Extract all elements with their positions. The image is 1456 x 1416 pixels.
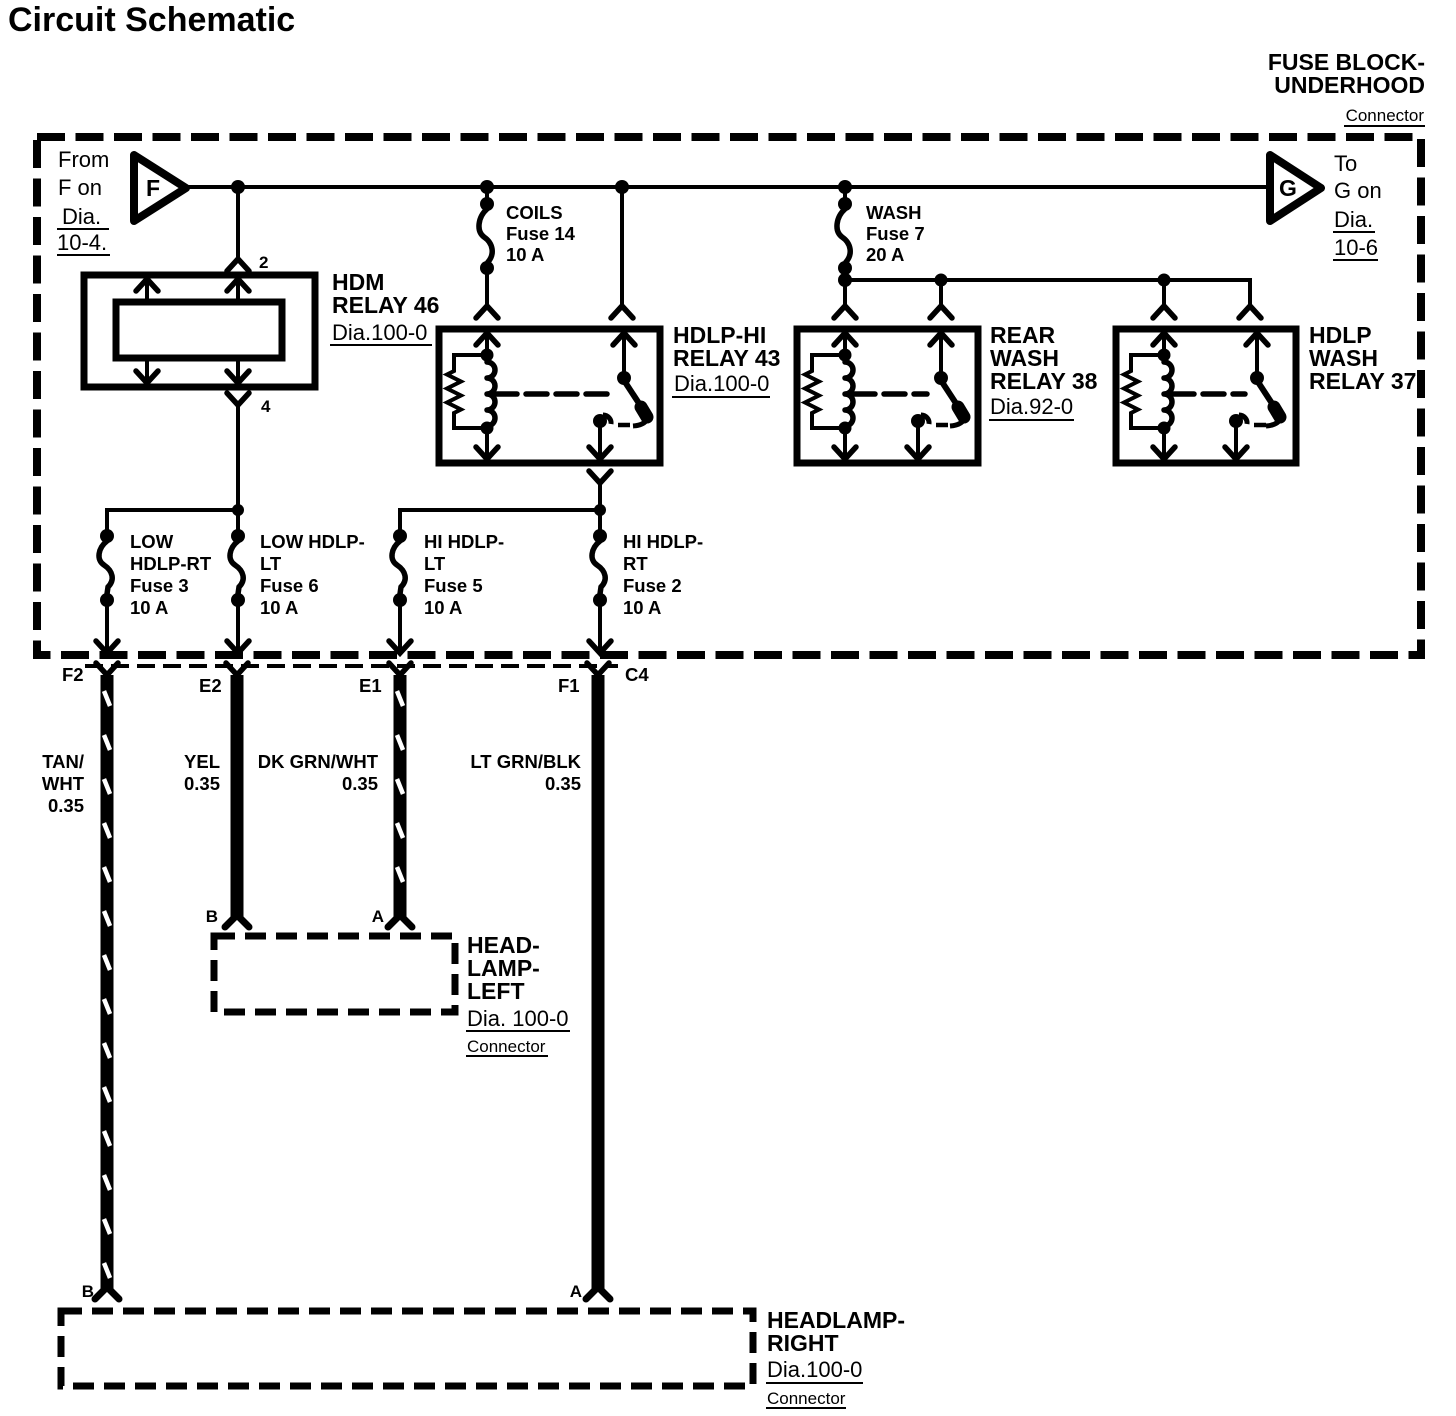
switch output arrow [916, 421, 920, 460]
svg-text:From: From [58, 147, 109, 172]
HEADLAMP-RIGHT connector box [61, 1311, 753, 1386]
svg-text:10 A: 10 A [623, 597, 661, 618]
pin arrow top left [145, 279, 149, 302]
svg-text:4: 4 [261, 397, 271, 416]
svg-text:RIGHT: RIGHT [767, 1330, 839, 1356]
svg-text:Fuse 7: Fuse 7 [866, 223, 925, 244]
svg-text:WHT: WHT [42, 773, 85, 794]
node dot low [232, 504, 244, 516]
svg-text:Connector: Connector [1346, 106, 1425, 125]
fuse 2 HI HDLP-RT [589, 529, 611, 653]
svg-text:A: A [570, 1282, 582, 1301]
svg-text:HI HDLP-: HI HDLP- [623, 531, 703, 552]
svg-text:Dia.100-0: Dia.100-0 [674, 371, 769, 396]
REAR WASH relay 38 label [989, 322, 1098, 420]
svg-text:LT GRN/BLK: LT GRN/BLK [470, 751, 581, 772]
switch common pin arrow [939, 332, 943, 375]
wire bus to relay43 switch pin [620, 187, 624, 305]
fork wire1 top [96, 663, 118, 675]
wire to relay38 coil [843, 280, 847, 305]
fuse 6 LOW HDLP-LT [227, 529, 249, 653]
wire DK GRN/WHT label [258, 751, 379, 794]
svg-text:0.35: 0.35 [545, 773, 581, 794]
wire LT GRN/BLK [592, 675, 605, 1289]
switch output arrow [598, 421, 602, 460]
connector fork below relay43 [589, 471, 611, 483]
wire DK GRN/WHT [394, 675, 407, 917]
svg-text:F2: F2 [62, 664, 84, 685]
wire to relay37 coil [1162, 280, 1166, 305]
svg-text:RELAY 38: RELAY 38 [990, 368, 1098, 394]
fork wire3 bottom [388, 915, 412, 927]
svg-text:COILS: COILS [506, 202, 563, 223]
fuse 14 COILS [479, 187, 494, 305]
svg-text:10-6: 10-6 [1334, 235, 1378, 260]
svg-text:TAN/: TAN/ [42, 751, 84, 772]
svg-text:Connector: Connector [767, 1389, 846, 1408]
svg-text:LT: LT [424, 553, 446, 574]
svg-text:LOW: LOW [130, 531, 174, 552]
svg-text:Fuse 6: Fuse 6 [260, 575, 319, 596]
switch NO contact [593, 414, 607, 428]
fuse 5 label [424, 531, 504, 618]
wire TAN/WHT label [42, 751, 85, 816]
off-page connector F [134, 155, 186, 221]
wash branch wire [845, 280, 1250, 305]
fork wire2 bottom [225, 915, 249, 927]
wire DK GRN/WHT stripes [397, 691, 403, 882]
node dot wash branch [838, 273, 852, 287]
wire TAN/WHT [101, 675, 114, 1289]
svg-text:20 A: 20 A [866, 244, 904, 265]
svg-text:2: 2 [259, 253, 268, 272]
connector fork pin 2 [227, 259, 249, 271]
resistor [805, 355, 845, 428]
svg-text:10-4.: 10-4. [57, 230, 107, 255]
svg-text:Fuse 5: Fuse 5 [424, 575, 483, 596]
coil bottom arrow [485, 428, 489, 460]
svg-text:F on: F on [58, 175, 102, 200]
fuse 3 LOW HDLP-RT [96, 529, 118, 653]
HDM relay 46 [84, 275, 315, 387]
main bus wire [187, 185, 1269, 189]
fuse 7 label [866, 202, 925, 265]
HDM relay 46 label [330, 269, 439, 345]
connector fork relay37 coil [1153, 306, 1175, 318]
svg-text:Dia.100-0: Dia.100-0 [332, 320, 427, 345]
connector dashed line [85, 664, 618, 668]
svg-text:LT: LT [260, 553, 282, 574]
off-page connector G [1270, 155, 1321, 221]
mechanical dashed link [496, 391, 610, 397]
HEADLAMP-LEFT label [466, 932, 570, 1056]
svg-text:RELAY 43: RELAY 43 [673, 345, 780, 371]
wire low hdlp horizontal [107, 510, 238, 530]
svg-text:LEFT: LEFT [467, 978, 525, 1004]
relay coil [487, 362, 495, 426]
coil pin arrow [485, 332, 489, 354]
svg-text:Dia. 100-0: Dia. 100-0 [467, 1006, 569, 1031]
HEADLAMP-LEFT connector box [214, 936, 455, 1012]
label From F on Dia 10-4 [57, 147, 110, 255]
svg-text:G on: G on [1334, 178, 1382, 203]
svg-text:RELAY 37: RELAY 37 [1309, 368, 1416, 394]
pin arrow top right [236, 279, 240, 302]
connector fork pin 4 [227, 393, 249, 405]
connector fork relay38 coil [834, 306, 856, 318]
node dot hi [594, 504, 606, 516]
svg-text:HI HDLP-: HI HDLP- [424, 531, 504, 552]
connector fork relay37 switch [1239, 306, 1261, 318]
resistor [1124, 355, 1164, 428]
switch blade [942, 382, 961, 411]
fork wire3 top [389, 663, 411, 675]
fuse 2 label [623, 531, 703, 618]
HDLP-HI relay 43 [439, 329, 660, 463]
node dot bus B [480, 180, 494, 194]
switch output arrow [1234, 421, 1238, 460]
svg-text:10 A: 10 A [424, 597, 462, 618]
svg-text:B: B [206, 907, 218, 926]
svg-text:Fuse 2: Fuse 2 [623, 575, 682, 596]
fork wire4 top [587, 663, 609, 675]
svg-text:Connector: Connector [467, 1037, 546, 1056]
wire HDM pin4 down [236, 405, 240, 510]
fuse 7 WASH [837, 187, 852, 280]
fuse 6 label [260, 531, 365, 618]
mechanical dashed link [1173, 391, 1245, 397]
switch NO contact [1229, 414, 1243, 428]
connector fork relay43 coil pin [476, 306, 498, 318]
node dot bus D [838, 180, 852, 194]
switch common pin arrow [622, 332, 626, 375]
relay coil [845, 362, 853, 426]
svg-text:A: A [372, 907, 384, 926]
svg-text:F1: F1 [558, 675, 580, 696]
HDLP-HI relay 43 label [672, 322, 780, 397]
wire YEL label [184, 751, 220, 794]
pin arrow bottom right [236, 358, 240, 384]
svg-text:RELAY 46: RELAY 46 [332, 292, 439, 318]
svg-text:G: G [1279, 175, 1297, 201]
fork wire1 bottom [95, 1287, 119, 1299]
fork wire4 bottom [586, 1287, 610, 1299]
svg-text:YEL: YEL [184, 751, 220, 772]
svg-text:10 A: 10 A [506, 244, 544, 265]
REAR WASH relay 38 [797, 329, 978, 463]
node dot branch rear wash [935, 274, 948, 287]
svg-text:C4: C4 [625, 664, 649, 685]
svg-text:Fuse 3: Fuse 3 [130, 575, 189, 596]
fuse block underhood label [1268, 49, 1425, 126]
pin arrow bottom left [145, 358, 149, 384]
svg-text:E2: E2 [199, 675, 222, 696]
connector fork relay43 switch pin [611, 306, 633, 318]
connector fork relay38 switch [930, 306, 952, 318]
svg-text:B: B [82, 1282, 94, 1301]
svg-text:10 A: 10 A [260, 597, 298, 618]
mechanical dashed link [854, 391, 927, 397]
switch blade [625, 382, 644, 411]
svg-text:0.35: 0.35 [184, 773, 220, 794]
fuse 14 label [506, 202, 576, 265]
svg-text:To: To [1334, 151, 1357, 176]
svg-text:LOW HDLP-: LOW HDLP- [260, 531, 365, 552]
resistor [447, 355, 487, 428]
svg-text:UNDERHOOD: UNDERHOOD [1274, 72, 1425, 98]
fuse block dashed border [37, 137, 1421, 655]
wire LT GRN/BLK label [470, 751, 581, 794]
wire YEL [231, 675, 244, 917]
HEADLAMP-RIGHT label [766, 1307, 905, 1408]
node dot bus C [615, 180, 629, 194]
label To G on Dia 10-6 [1333, 151, 1382, 260]
svg-text:0.35: 0.35 [342, 773, 378, 794]
svg-text:Dia.92-0: Dia.92-0 [990, 394, 1073, 419]
HDLP WASH relay 37 label [1309, 322, 1416, 394]
fuse 5 HI HDLP-LT [389, 529, 411, 653]
relay coil [1164, 362, 1172, 426]
svg-text:Dia.100-0: Dia.100-0 [767, 1357, 862, 1382]
switch common pin arrow [1255, 332, 1259, 375]
wire TAN/WHT stripes [104, 691, 110, 1278]
wire relay43 output down [598, 483, 602, 530]
svg-text:F: F [146, 175, 160, 201]
svg-text:DK GRN/WHT: DK GRN/WHT [258, 751, 379, 772]
svg-text:Dia.: Dia. [1334, 207, 1373, 232]
fork wire2 top [226, 663, 248, 675]
wire to fuse 6 [236, 510, 240, 530]
svg-text:10 A: 10 A [130, 597, 168, 618]
svg-text:Circuit Schematic: Circuit Schematic [8, 1, 295, 39]
wire to relay38 switch [939, 280, 943, 305]
svg-text:Fuse 14: Fuse 14 [506, 223, 576, 244]
svg-text:E1: E1 [359, 675, 382, 696]
fuse 3 label [130, 531, 212, 618]
wire hi hdlp horizontal [400, 510, 600, 530]
node dot bus A [231, 180, 245, 194]
HDLP WASH relay 37 [1116, 329, 1296, 463]
svg-text:RT: RT [623, 553, 648, 574]
svg-text:Dia.: Dia. [62, 204, 101, 229]
svg-text:0.35: 0.35 [48, 795, 84, 816]
svg-text:HDLP-RT: HDLP-RT [130, 553, 212, 574]
switch NO contact [911, 414, 925, 428]
svg-text:WASH: WASH [866, 202, 922, 223]
node dot branch hdlp wash [1158, 274, 1171, 287]
wire bus to HDM pin 2 [236, 187, 240, 258]
switch blade [1258, 382, 1277, 411]
